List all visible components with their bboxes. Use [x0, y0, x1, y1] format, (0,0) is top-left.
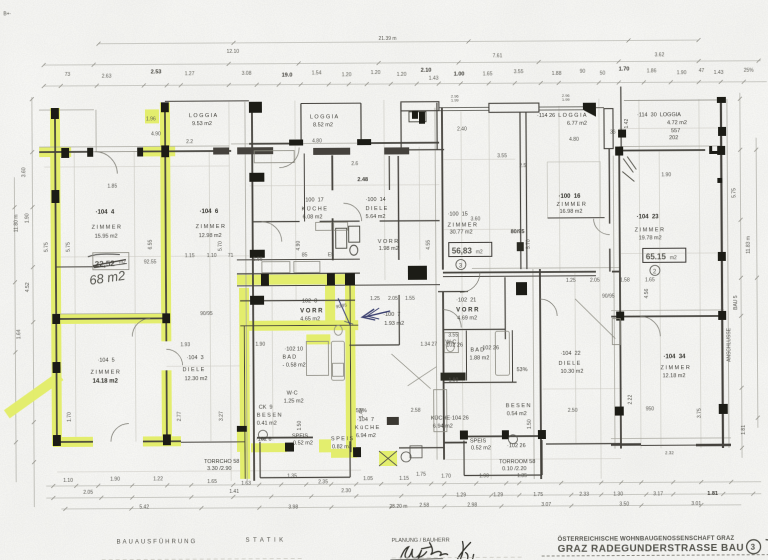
- svg-text:2.63: 2.63: [102, 74, 112, 80]
- svg-text:3.27: 3.27: [219, 411, 225, 421]
- svg-text:·100 17: ·100 17: [303, 197, 323, 203]
- svg-text:PLANUNG / BAUHERR: PLANUNG / BAUHERR: [392, 538, 450, 544]
- svg-text:·104 34: ·104 34: [663, 354, 686, 360]
- svg-text:1.64: 1.64: [16, 329, 22, 339]
- svg-text:·104 22: ·104 22: [560, 351, 580, 357]
- svg-text:2.35: 2.35: [318, 479, 328, 485]
- svg-text:2.33: 2.33: [579, 492, 589, 498]
- svg-text:V O R R: V O R R: [456, 307, 479, 313]
- svg-text:·100 16: ·100 16: [558, 194, 581, 200]
- svg-text:1.10: 1.10: [207, 253, 217, 259]
- svg-text:1.35: 1.35: [517, 473, 527, 479]
- svg-text:V O R R: V O R R: [378, 239, 399, 245]
- svg-text:56,83: 56,83: [452, 246, 473, 255]
- svg-text:3.30 /2.90: 3.30 /2.90: [207, 466, 232, 472]
- svg-text:25%: 25%: [744, 68, 755, 74]
- svg-text:1.55: 1.55: [405, 296, 415, 302]
- svg-text:1.90: 1.90: [661, 172, 671, 178]
- svg-text:CK 9: CK 9: [259, 405, 273, 411]
- svg-text:71: 71: [228, 253, 234, 259]
- svg-text:·102 10: ·102 10: [284, 346, 303, 352]
- svg-text:6.08 m2: 6.08 m2: [303, 214, 323, 220]
- svg-text:2.77: 2.77: [177, 411, 183, 421]
- svg-text:0.52 m2: 0.52 m2: [471, 445, 491, 451]
- svg-text:12.30 m2: 12.30 m2: [185, 376, 208, 382]
- svg-text:10.30 m2: 10.30 m2: [561, 369, 584, 375]
- svg-text:1.50: 1.50: [297, 421, 303, 431]
- svg-text:1.85: 1.85: [107, 184, 117, 190]
- svg-text:·102 26: ·102 26: [507, 443, 526, 449]
- svg-text:·100 15: ·100 15: [448, 211, 468, 217]
- svg-text:1.43: 1.43: [714, 70, 724, 76]
- svg-text:3.01: 3.01: [691, 501, 701, 507]
- svg-text:30.77 m2: 30.77 m2: [450, 229, 473, 235]
- svg-text:2.53: 2.53: [151, 69, 162, 75]
- svg-text:80/95: 80/95: [511, 229, 525, 235]
- svg-text:4.72 m2: 4.72 m2: [667, 120, 687, 126]
- svg-text:BAU 5: BAU 5: [733, 295, 739, 310]
- svg-text:65.15: 65.15: [646, 252, 667, 261]
- svg-text:2.2: 2.2: [186, 139, 193, 145]
- svg-text:14.18 m2: 14.18 m2: [93, 379, 119, 385]
- svg-text:W·C: W·C: [287, 391, 298, 397]
- svg-text:Z I M M E R: Z I M M E R: [635, 227, 664, 233]
- svg-text:1.20: 1.20: [371, 70, 381, 76]
- svg-text:5.42: 5.42: [139, 504, 149, 510]
- svg-text:9.53 m2: 9.53 m2: [192, 121, 212, 127]
- svg-text:TORROOM 58: TORROOM 58: [499, 459, 535, 465]
- svg-text:3.55: 3.55: [497, 153, 507, 159]
- svg-text:1.15: 1.15: [399, 476, 409, 482]
- svg-text:1.41: 1.41: [229, 489, 239, 495]
- svg-text:85: 85: [302, 252, 308, 258]
- svg-text:0.10 /2.20: 0.10 /2.20: [502, 466, 527, 472]
- svg-text:1.29: 1.29: [456, 493, 466, 499]
- svg-text:19.78 m2: 19.78 m2: [639, 235, 662, 241]
- svg-text:3.50: 3.50: [619, 502, 629, 508]
- svg-text:1.65: 1.65: [645, 277, 655, 283]
- svg-text:·100 7: ·100 7: [383, 312, 400, 318]
- svg-text:1.93: 1.93: [180, 342, 190, 348]
- svg-text:3.75: 3.75: [697, 408, 703, 418]
- svg-text:2.6: 2.6: [351, 161, 358, 167]
- svg-text:V O R R: V O R R: [300, 308, 323, 314]
- svg-text:·104 5: ·104 5: [97, 358, 114, 364]
- svg-text:1.90: 1.90: [479, 473, 489, 479]
- svg-text:1.43: 1.43: [429, 76, 439, 82]
- svg-text:1.54: 1.54: [312, 70, 322, 76]
- svg-text:5.70: 5.70: [526, 239, 532, 249]
- svg-text:K ü C H E: K ü C H E: [355, 425, 380, 431]
- svg-text:GRAZ RADEGUNDERSTRASSE BAU: GRAZ RADEGUNDERSTRASSE BAU: [558, 543, 744, 555]
- svg-text:2.05: 2.05: [83, 490, 93, 496]
- svg-text:73: 73: [65, 72, 71, 78]
- svg-text:1.20: 1.20: [342, 72, 352, 78]
- svg-text:SPEIS: SPEIS: [292, 433, 309, 439]
- svg-text:Z I M M E R: Z I M M E R: [196, 224, 225, 230]
- svg-text:BAUAUSFÜHRUNG: BAUAUSFÜHRUNG: [117, 538, 198, 545]
- svg-text:1.90: 1.90: [110, 477, 120, 483]
- svg-text:2.48: 2.48: [357, 177, 368, 183]
- svg-text:4.65 m2: 4.65 m2: [300, 316, 320, 322]
- svg-text:1.30: 1.30: [613, 492, 623, 498]
- svg-text:·114 30 LOGGIA: ·114 30 LOGGIA: [637, 112, 681, 118]
- svg-text:12.18 m2: 12.18 m2: [663, 373, 686, 379]
- svg-text:3.60: 3.60: [471, 216, 481, 222]
- svg-text:E5: E5: [328, 252, 334, 258]
- svg-text:D I E L E: D I E L E: [182, 367, 204, 373]
- svg-text:3.08: 3.08: [242, 71, 252, 77]
- svg-text:1.70: 1.70: [619, 66, 630, 72]
- svg-text:1.63: 1.63: [241, 481, 251, 487]
- svg-text:5.75: 5.75: [731, 188, 737, 198]
- svg-text:K Ü C H E: K Ü C H E: [302, 205, 328, 212]
- svg-text:1.99: 1.99: [562, 97, 571, 102]
- svg-text:12.10: 12.10: [227, 49, 240, 55]
- svg-text:1.05: 1.05: [363, 476, 373, 482]
- svg-text:·104 23: ·104 23: [637, 214, 660, 220]
- svg-text:2.22: 2.22: [628, 395, 634, 405]
- svg-text:1.10: 1.10: [63, 478, 73, 484]
- svg-text:12.98 m2: 12.98 m2: [199, 233, 222, 239]
- svg-text:53%: 53%: [517, 367, 528, 373]
- svg-text:L O G G I A: L O G G I A: [310, 114, 339, 120]
- svg-text:1.25: 1.25: [566, 278, 576, 284]
- svg-text:4.55: 4.55: [426, 240, 432, 250]
- svg-text:·100 14: ·100 14: [365, 197, 385, 203]
- svg-text:W·C: W·C: [445, 340, 456, 346]
- svg-text:1.90: 1.90: [449, 378, 459, 384]
- svg-text:1.75: 1.75: [416, 472, 426, 478]
- svg-text:D I E L E: D I E L E: [558, 361, 580, 367]
- svg-text:19.0: 19.0: [282, 73, 293, 79]
- svg-text:90/95: 90/95: [200, 311, 213, 317]
- svg-text:11.83 m: 11.83 m: [746, 236, 752, 254]
- svg-text:202: 202: [669, 135, 678, 141]
- svg-text:3.98: 3.98: [288, 505, 298, 511]
- svg-text:2.40: 2.40: [457, 126, 467, 132]
- svg-text:1.99: 1.99: [451, 98, 460, 103]
- svg-text:1.25: 1.25: [370, 296, 380, 302]
- svg-text:11.80 m: 11.80 m: [14, 215, 20, 233]
- svg-text:1.86: 1.86: [647, 68, 657, 74]
- svg-text:2.58: 2.58: [411, 408, 421, 414]
- svg-text:Z I M M E R: Z I M M E R: [448, 222, 477, 228]
- svg-text:6.55: 6.55: [148, 239, 154, 249]
- svg-text:4.52: 4.52: [25, 282, 31, 292]
- svg-text:5.70: 5.70: [218, 241, 224, 251]
- svg-text:D I E L E: D I E L E: [366, 206, 388, 212]
- svg-text:5.64 m2: 5.64 m2: [366, 214, 386, 220]
- svg-text:1.25 m2: 1.25 m2: [284, 398, 304, 404]
- svg-text:1.34 27: 1.34 27: [420, 342, 437, 348]
- svg-text:·114 26 L O G G I A: ·114 26 L O G G I A: [537, 113, 587, 119]
- svg-text:STATIK: STATIK: [246, 538, 287, 544]
- svg-text:1.70: 1.70: [441, 474, 451, 480]
- svg-text:1.96: 1.96: [146, 116, 156, 122]
- svg-text:2.98: 2.98: [467, 502, 477, 508]
- svg-text:1.90: 1.90: [677, 70, 687, 76]
- svg-text:3.60: 3.60: [21, 167, 27, 177]
- svg-text:B A D: B A D: [470, 347, 484, 353]
- svg-text:Z I M M E R: Z I M M E R: [660, 365, 689, 371]
- svg-text:1.50: 1.50: [527, 419, 533, 429]
- svg-text:·102 21: ·102 21: [456, 297, 476, 303]
- svg-text:B A D: B A D: [282, 355, 296, 361]
- svg-text:4.90: 4.90: [296, 241, 302, 251]
- svg-text:3.55: 3.55: [448, 333, 458, 339]
- svg-text:5.75: 5.75: [66, 242, 72, 252]
- svg-text:4.80: 4.80: [569, 137, 579, 143]
- svg-text:B E S E N: B E S E N: [257, 413, 282, 419]
- svg-text:3.62: 3.62: [655, 52, 665, 58]
- svg-text:15.95 m2: 15.95 m2: [95, 234, 118, 240]
- svg-text:1.27: 1.27: [185, 71, 195, 77]
- svg-text:ÖSTERREICHISCHE WOHNBAUGENOSS: ÖSTERREICHISCHE WOHNBAUGENOSSENSCHAFT GR…: [558, 535, 735, 543]
- svg-text:950: 950: [646, 406, 655, 412]
- svg-text:Z I M M E R: Z I M M E R: [556, 202, 585, 208]
- svg-text:2.55: 2.55: [253, 257, 263, 263]
- svg-text:1.81: 1.81: [741, 425, 747, 435]
- svg-text:1.88: 1.88: [552, 71, 562, 77]
- svg-text:0.52 m2: 0.52 m2: [293, 440, 313, 446]
- svg-text:4.56: 4.56: [644, 288, 650, 298]
- svg-text:TORRCHO 58: TORRCHO 58: [204, 459, 239, 465]
- svg-text:m2: m2: [476, 249, 483, 255]
- svg-text:557: 557: [671, 128, 680, 134]
- svg-text:1.93 m2: 1.93 m2: [384, 321, 404, 327]
- svg-text:1.75: 1.75: [533, 492, 543, 498]
- svg-text:0.82 m2: 0.82 m2: [332, 444, 352, 450]
- svg-text:3.07: 3.07: [541, 502, 551, 508]
- svg-text:3.55: 3.55: [514, 69, 524, 75]
- svg-text:7.61: 7.61: [493, 53, 503, 59]
- svg-text:4.69 m2: 4.69 m2: [457, 315, 477, 321]
- svg-text:90/95: 90/95: [602, 294, 615, 300]
- svg-text:3: 3: [751, 543, 756, 552]
- svg-text:2.10: 2.10: [421, 68, 432, 74]
- svg-text:23.20 m: 23.20 m: [389, 504, 407, 510]
- svg-text:S P E I S: S P E I S: [331, 436, 354, 442]
- svg-text:2.05: 2.05: [388, 296, 398, 302]
- svg-text:1.65: 1.65: [483, 71, 493, 77]
- svg-text:47: 47: [699, 68, 705, 74]
- svg-text:1.98 m2: 1.98 m2: [379, 246, 399, 252]
- svg-text:1.35: 1.35: [287, 474, 297, 480]
- svg-text:2.58: 2.58: [419, 503, 429, 509]
- svg-text:1.20: 1.20: [397, 72, 407, 78]
- svg-text:1.70: 1.70: [67, 412, 73, 422]
- svg-text:1.88 m2: 1.88 m2: [469, 355, 489, 361]
- svg-text:2.30: 2.30: [341, 488, 351, 494]
- svg-text:90: 90: [580, 69, 586, 75]
- svg-text:4.80: 4.80: [312, 138, 322, 144]
- svg-text:6.77 m2: 6.77 m2: [567, 121, 587, 127]
- svg-text:·102 6: ·102 6: [256, 437, 272, 443]
- svg-text:·104 4: ·104 4: [96, 210, 115, 216]
- svg-text:1.42: 1.42: [624, 119, 630, 129]
- svg-text:- 0.58 m2: - 0.58 m2: [282, 362, 305, 368]
- svg-text:SPEIS: SPEIS: [470, 438, 487, 444]
- svg-text:m2: m2: [670, 255, 677, 261]
- svg-text:2.50: 2.50: [568, 408, 578, 414]
- svg-text:92.55: 92.55: [144, 259, 157, 265]
- svg-text:1.15: 1.15: [185, 253, 195, 259]
- svg-text:16.98 m2: 16.98 m2: [560, 209, 583, 215]
- svg-text:Z I M M E R: Z I M M E R: [91, 370, 120, 376]
- svg-text:1.65: 1.65: [207, 479, 217, 485]
- svg-text:0.54 m2: 0.54 m2: [507, 411, 527, 417]
- svg-text:0.41 m2: 0.41 m2: [257, 421, 277, 427]
- svg-text:KÜCHE·104 26: KÜCHE·104 26: [431, 414, 469, 421]
- svg-text:ANSCHLUSSE: ANSCHLUSSE: [726, 327, 732, 362]
- svg-text:2.05: 2.05: [590, 278, 600, 284]
- svg-text:1.29: 1.29: [493, 492, 503, 498]
- svg-text:·104 3: ·104 3: [186, 355, 203, 361]
- svg-text:21.39 m: 21.39 m: [378, 36, 396, 42]
- svg-text:1.22: 1.22: [153, 476, 163, 482]
- svg-text:1.90: 1.90: [255, 342, 265, 348]
- svg-text:5.75: 5.75: [44, 242, 50, 252]
- svg-text:8.52 m2: 8.52 m2: [313, 122, 333, 128]
- svg-text:2.32: 2.32: [665, 450, 674, 455]
- svg-text:·104 6: ·104 6: [200, 209, 219, 215]
- svg-text:6.94 m2: 6.94 m2: [356, 433, 376, 439]
- svg-text:3.17: 3.17: [653, 491, 663, 497]
- svg-text:1.81: 1.81: [707, 491, 718, 497]
- svg-text:B+·: B+·: [3, 11, 11, 17]
- svg-text:1.58: 1.58: [620, 277, 630, 283]
- svg-text:L O G G I A: L O G G I A: [189, 113, 218, 119]
- svg-text:6.94 m2: 6.94 m2: [433, 424, 453, 430]
- svg-text:2.5: 2.5: [519, 163, 526, 169]
- svg-text:Z I M M E R: Z I M M E R: [92, 225, 121, 231]
- svg-text:4.90: 4.90: [151, 131, 161, 137]
- svg-text:50: 50: [600, 71, 606, 77]
- svg-text:B E S E N: B E S E N: [506, 403, 531, 409]
- svg-text:1.90: 1.90: [25, 213, 31, 223]
- svg-text:36: 36: [610, 130, 616, 136]
- svg-text:1.00: 1.00: [454, 72, 465, 78]
- svg-text:1.48: 1.48: [359, 408, 365, 418]
- svg-text:·102 8: ·102 8: [300, 298, 317, 304]
